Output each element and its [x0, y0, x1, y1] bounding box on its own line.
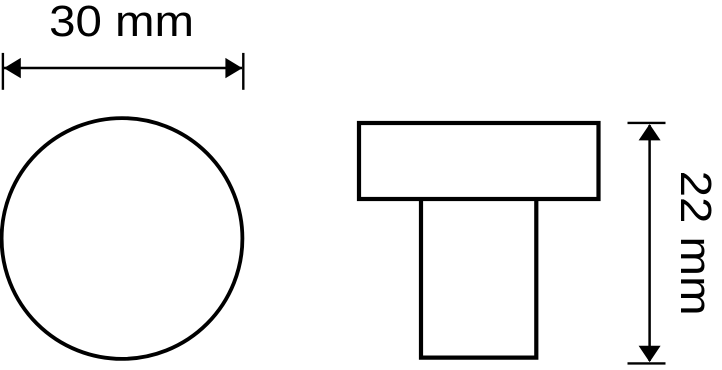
- right arrowhead: [225, 58, 242, 78]
- svg-text:22 mm: 22 mm: [671, 171, 720, 316]
- horizontal dimension line (30 mm): [4, 67, 242, 70]
- left arrowhead: [4, 58, 21, 78]
- vertical dimension line (22 mm): [648, 125, 651, 361]
- bottom arrowhead: [639, 346, 661, 362]
- knob side view: head rectangle: [359, 123, 599, 199]
- right extension tick: [242, 53, 244, 90]
- svg-text:30 mm: 30 mm: [49, 0, 194, 46]
- left extension tick: [2, 53, 4, 90]
- bottom extension tick: [628, 362, 666, 364]
- knob side view: stem outline: [421, 199, 536, 358]
- top extension tick: [628, 122, 666, 124]
- knob top view: circle: [2, 118, 243, 359]
- top arrowhead: [639, 124, 661, 140]
